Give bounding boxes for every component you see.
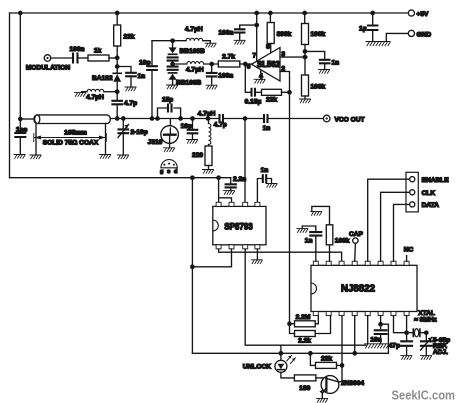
svg-text:22k: 22k — [124, 34, 135, 41]
svg-text:4.7µH: 4.7µH — [86, 94, 104, 101]
connector ENABLE CLK DATA — [406, 172, 418, 212]
inductor 4.7uH varactor mid — [187, 62, 204, 64]
wire NJ8822 pin4 bottom to lock line — [354, 316, 356, 354]
varactor BB109B upper — [172, 41, 174, 48]
wire +5V drop to coax feed — [19, 13, 21, 119]
wire NJ8822 pin3 bottom to transistor collector — [341, 316, 343, 366]
svg-text:GND: GND — [417, 31, 432, 38]
wire bus to SP8793 pins 1,2 — [217, 176, 220, 179]
wire cap to 1k — [78, 57, 89, 59]
svg-text:2-10p: 2-10p — [131, 129, 148, 136]
svg-text:CLK: CLK — [422, 190, 436, 197]
capacitor 1n NJ8822 pin1 filter — [315, 236, 317, 262]
varactor BB109B lower — [172, 64, 174, 66]
svg-text:100n: 100n — [218, 73, 233, 80]
resistor 22k feedback RC — [257, 91, 262, 93]
svg-text:1k: 1k — [94, 48, 102, 55]
node VCO to prescaler — [243, 117, 246, 120]
terminal CAP — [353, 238, 358, 243]
ground wide under 1u and GND — [366, 42, 390, 46]
wire NJ8822 pin5 bottom to ground bar — [367, 316, 369, 344]
trimmer 2-10p — [122, 119, 124, 156]
svg-text:2N3904: 2N3904 — [341, 380, 364, 387]
capacitor 10n NJ8822 pin6 to ground — [380, 316, 382, 331]
svg-text:22k: 22k — [266, 96, 277, 103]
IC U3 NJ8822 synthesizer — [311, 265, 417, 311]
svg-text:ADJ.: ADJ. — [433, 349, 448, 356]
wire coax shield right to ground — [105, 124, 107, 155]
wire 1k to node X — [109, 57, 117, 59]
transistor Q1 2N3904 — [321, 376, 339, 394]
diode BA182 — [116, 67, 118, 74]
wire coax shield left to ground — [35, 124, 37, 156]
svg-text:BB109B: BB109B — [180, 48, 206, 55]
SP8793 pins — [216, 202, 221, 206]
transistor J310 FET — [169, 119, 171, 129]
svg-text:47p: 47p — [389, 342, 400, 349]
wire DATA to pin7 — [394, 204, 410, 261]
svg-text:SL562: SL562 — [257, 60, 281, 69]
svg-text:DATA: DATA — [422, 202, 440, 209]
svg-text:4.7µH: 4.7µH — [186, 66, 204, 73]
op-amp U1 SL562 — [252, 48, 281, 82]
svg-text:100k: 100k — [311, 83, 326, 90]
wire pin4 to ground — [260, 70, 262, 79]
svg-text:1n: 1n — [261, 167, 269, 174]
wire varactor top node — [152, 40, 186, 42]
wire NJ8822 pin7 to crystal — [394, 316, 425, 333]
LED emission arrows — [287, 355, 296, 363]
svg-text:165mm: 165mm — [64, 130, 87, 137]
capacitor 15p across J310 — [158, 108, 181, 119]
svg-text:100n: 100n — [69, 46, 84, 53]
wire pin3 output — [280, 56, 307, 58]
resistor 100k lower divider — [302, 75, 309, 96]
svg-text:+5V: +5V — [417, 11, 430, 18]
coax line 165mm SOLID 75ohm — [34, 115, 110, 124]
resistor 220 — [208, 145, 210, 147]
capacitor 10p J310 output to ground — [192, 119, 194, 140]
wire lock line to 10n node — [192, 324, 388, 353]
svg-text:180: 180 — [299, 385, 310, 392]
capacitor 47p — [406, 333, 408, 356]
svg-text:BA182: BA182 — [92, 75, 113, 82]
resistor 2.2k loop filter — [290, 324, 295, 334]
wire coax feed — [20, 118, 34, 120]
capacitor 1n SP8793 pin4 decoupling — [257, 179, 261, 203]
wire node X down — [116, 58, 118, 67]
resistor 390k — [269, 13, 271, 23]
ground under 1n — [125, 87, 136, 91]
svg-text:NJ8822: NJ8822 — [341, 283, 375, 294]
wire shield bus drop to SP8793 — [191, 178, 193, 354]
inductor 4.7uH vertical drain load — [206, 117, 209, 120]
svg-text:1µ: 1µ — [359, 26, 367, 33]
svg-text:UNLOCK: UNLOCK — [243, 364, 271, 371]
svg-text:SOLID 75Ω COAX: SOLID 75Ω COAX — [43, 140, 99, 147]
svg-text:10p: 10p — [181, 123, 192, 130]
svg-text:4.7p: 4.7p — [214, 121, 227, 128]
wire SP8793 pin5 to NJ8822 pin3 — [219, 249, 342, 261]
svg-text:2.2n: 2.2n — [233, 176, 246, 183]
resistor 100k upper divider — [304, 13, 306, 24]
wire modulation to cap — [51, 57, 73, 59]
wire resonator main line — [110, 118, 208, 120]
svg-text:1n: 1n — [263, 125, 271, 132]
capacitor 1n divider to ground — [305, 51, 325, 59]
wire left shield-box edge — [9, 13, 11, 178]
wire pin2 feedback — [280, 72, 290, 93]
capacitor 100n SL562 supply filter — [256, 13, 258, 62]
svg-text:100n: 100n — [218, 29, 233, 36]
crystal XTAL 9MHz — [413, 329, 420, 337]
svg-text:220: 220 — [192, 152, 203, 159]
wire SP8793 pin8 to ground — [256, 249, 258, 260]
wire +5V top rail — [10, 12, 409, 14]
wire varactor mid node to 2.7k — [173, 63, 219, 65]
wire VCO signal to SP8793 pin3 — [244, 119, 246, 203]
svg-text:1n: 1n — [138, 73, 146, 80]
resistor 1k — [88, 55, 109, 61]
inductor 4.7uH node X to ground — [104, 91, 117, 93]
svg-text:15p: 15p — [162, 96, 173, 103]
svg-text:10p: 10p — [139, 60, 150, 67]
node NC pin8 — [406, 256, 408, 262]
capacitor 1n node X — [126, 73, 136, 77]
capacitor 0.15u feedback RC — [245, 64, 250, 92]
trimmer 5-65p REF ADJ — [425, 331, 428, 334]
svg-text:100k: 100k — [335, 238, 350, 245]
svg-text:0.15µ: 0.15µ — [245, 98, 262, 105]
terminal MODULATION input — [44, 55, 51, 62]
wire NJ8822 pin8 to crystal node — [406, 316, 408, 333]
LED UNLOCK indicator — [275, 360, 287, 372]
svg-text:100k: 100k — [311, 31, 326, 38]
NJ8822 pins bottom — [313, 312, 318, 316]
capacitor 10p varactor coupling — [151, 41, 153, 119]
resistor 22k from +5V to node X — [116, 13, 118, 25]
resistor 2.7k tune feed — [218, 61, 240, 67]
wire SP8793 pin6 to shield drop — [192, 249, 231, 267]
ground under 1nc — [14, 155, 25, 159]
terminal GND — [408, 30, 414, 36]
capacitor 2.2n bus bypass — [230, 178, 232, 184]
svg-text:4.7µH: 4.7µH — [185, 26, 203, 33]
wire SP8793 pin7 lock line — [245, 249, 366, 345]
IC U2 SP8793 prescaler — [213, 206, 266, 244]
svg-text:7: 7 — [252, 52, 256, 59]
svg-text:MODULATION: MODULATION — [26, 65, 70, 72]
capacitor 4.7p series output — [209, 118, 246, 120]
capacitor 1n VCO out coupling — [245, 118, 324, 120]
svg-text:ENABLE: ENABLE — [422, 177, 450, 184]
svg-text:4.7p: 4.7p — [124, 100, 137, 107]
wire shield-box bottom ground bus — [10, 177, 231, 179]
J310 package g s d bottom view — [161, 160, 177, 168]
svg-text:≈ 9MHz: ≈ 9MHz — [414, 316, 437, 323]
capacitor 100n varactor mid to ground — [211, 64, 213, 85]
svg-text:1n: 1n — [332, 59, 340, 66]
wire feedback line down to loop filter — [289, 92, 291, 323]
svg-text:6: 6 — [247, 63, 251, 70]
terminal +5V — [408, 10, 414, 16]
dimension 165mm arrows — [34, 134, 107, 142]
capacitor 1nc — [19, 119, 21, 155]
svg-text:SeekIC.com: SeekIC.com — [392, 388, 456, 403]
capacitor 100n modulation — [73, 54, 78, 63]
wire node X to 1n — [117, 67, 131, 73]
svg-text:2.2k: 2.2k — [298, 337, 311, 344]
svg-text:390k: 390k — [277, 31, 292, 38]
wire GND terminal to ground — [386, 33, 408, 41]
svg-text:J310: J310 — [148, 139, 163, 146]
resistor 180 — [294, 375, 316, 381]
svg-text:1n: 1n — [305, 238, 313, 245]
svg-text:22k: 22k — [321, 356, 332, 363]
svg-text:2.7k: 2.7k — [222, 53, 235, 60]
svg-text:g s d: g s d — [160, 169, 179, 175]
svg-text:CAP: CAP — [349, 231, 364, 238]
capacitor 1u supply decoupling — [372, 13, 374, 42]
inductor 4.7uH varactor top to ground — [186, 38, 203, 40]
svg-text:8: 8 — [266, 44, 270, 51]
svg-text:SP8793: SP8793 — [224, 221, 253, 231]
svg-text:10n: 10n — [370, 336, 381, 343]
wire CLK to pin6 — [381, 192, 410, 261]
resistor 22k lock drive — [310, 353, 315, 365]
terminal VCO OUT — [323, 115, 330, 122]
svg-text:4.7µH: 4.7µH — [198, 110, 216, 117]
svg-text:1nc: 1nc — [16, 127, 28, 134]
svg-text:VCO OUT: VCO OUT — [335, 116, 365, 123]
svg-text:2.2M: 2.2M — [296, 314, 311, 321]
svg-text:BB109B: BB109B — [176, 79, 202, 86]
resistor 100k NJ8822 pin2 filter — [329, 245, 331, 261]
wire ENABLE to pin5 — [368, 179, 410, 261]
capacitor 4.7p node X to resonator — [116, 92, 118, 119]
svg-text:NC: NC — [404, 246, 414, 253]
resistor 2.2M loop filter — [288, 322, 291, 325]
NJ8822 pins top — [313, 261, 318, 265]
